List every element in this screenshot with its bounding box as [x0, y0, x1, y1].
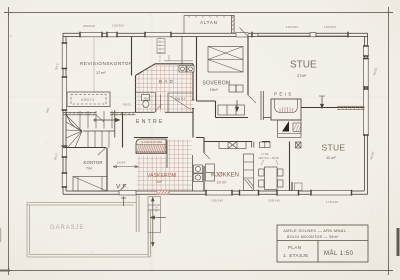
- svg-text:175/140: 175/140: [326, 200, 338, 204]
- svg-text:REVISIONSKONTOR: REVISIONSKONTOR: [80, 61, 133, 66]
- svg-text:13m²: 13m²: [210, 88, 219, 92]
- svg-text:3m²: 3m²: [156, 180, 163, 184]
- svg-text:180/102: 180/102: [324, 25, 336, 29]
- svg-text:JARLE SOLNES — ARK.MNAL.: JARLE SOLNES — ARK.MNAL.: [283, 228, 348, 233]
- svg-text:475: 475: [155, 206, 159, 212]
- svg-text:KJØKKEN: KJØKKEN: [211, 173, 239, 179]
- svg-text:400×50 ÷ BUR: 400×50 ÷ BUR: [258, 156, 279, 160]
- svg-text:DUSJ: DUSJ: [175, 97, 186, 101]
- svg-text:ALTAN: ALTAN: [200, 20, 218, 25]
- svg-text:MÅL 1:50: MÅL 1:50: [324, 250, 354, 257]
- svg-text:WC: WC: [144, 97, 150, 101]
- svg-text:SOVEROM: SOVEROM: [203, 81, 231, 87]
- svg-text:150/100: 150/100: [112, 24, 124, 28]
- svg-text:ARKIV: ARKIV: [81, 98, 95, 102]
- svg-text:ENTRE: ENTRE: [136, 119, 165, 125]
- svg-text:7m²: 7m²: [86, 167, 93, 171]
- svg-text:STUE: STUE: [290, 60, 317, 71]
- svg-text:190/102: 190/102: [286, 25, 298, 29]
- svg-text:PEIS: PEIS: [274, 92, 294, 97]
- svg-text:GARASJE: GARASJE: [50, 225, 84, 231]
- svg-text:STUE: STUE: [322, 143, 346, 153]
- svg-text:V.F.: V.F.: [116, 184, 128, 191]
- svg-text:PLAN: PLAN: [288, 245, 301, 250]
- svg-text:195/140: 195/140: [211, 199, 223, 203]
- svg-text:GARDEROBE: GARDEROBE: [141, 140, 162, 144]
- svg-text:17 m²: 17 m²: [96, 71, 106, 75]
- svg-text:BAD: BAD: [159, 79, 175, 84]
- svg-text:85/21: 85/21: [123, 103, 132, 107]
- svg-text:10 m²: 10 m²: [217, 181, 227, 185]
- svg-text:KONTOR: KONTOR: [84, 160, 103, 165]
- svg-text:12 m²: 12 m²: [326, 156, 336, 160]
- svg-text:290/110: 290/110: [83, 24, 95, 28]
- svg-text:295/140: 295/140: [268, 199, 280, 203]
- svg-text:BOLIG M/KONTOR — 99m²: BOLIG M/KONTOR — 99m²: [287, 235, 339, 239]
- svg-text:1. ETASJE: 1. ETASJE: [283, 253, 309, 258]
- svg-text:27m²: 27m²: [297, 73, 307, 78]
- svg-text:50/24: 50/24: [117, 161, 126, 165]
- svg-text:VASKEROM: VASKEROM: [147, 173, 176, 179]
